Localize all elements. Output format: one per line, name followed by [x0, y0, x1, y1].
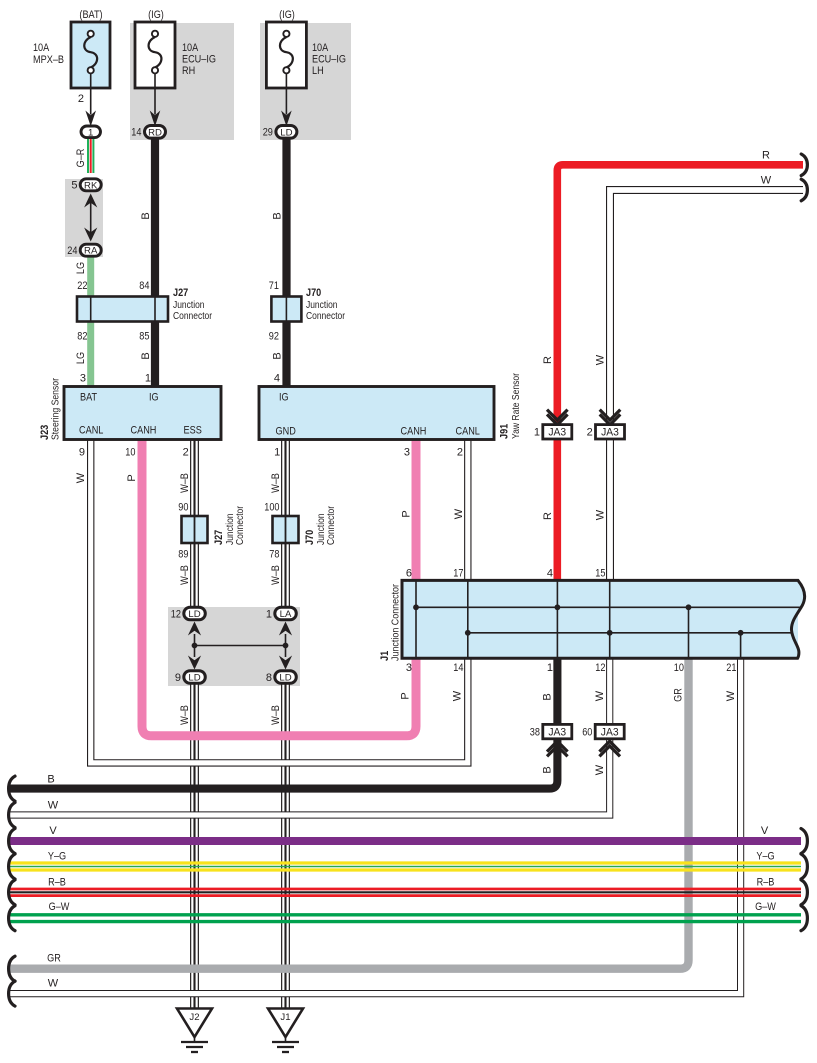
- wire label W (upper right): [595, 354, 607, 365]
- svg-text:5: 5: [71, 180, 77, 192]
- wire label B (below J1 pin1): [542, 693, 554, 700]
- wire label W (below J1 pin14): [452, 690, 464, 701]
- svg-text:1: 1: [88, 127, 93, 138]
- svg-text:LD: LD: [188, 609, 200, 620]
- svg-text:10: 10: [125, 447, 135, 459]
- svg-text:JA3: JA3: [601, 726, 619, 738]
- svg-text:RD: RD: [148, 127, 162, 138]
- chevron out of JA3 38: [547, 741, 568, 756]
- svg-text:4: 4: [547, 568, 553, 580]
- svg-text:IG: IG: [279, 392, 289, 404]
- svg-text:B: B: [542, 766, 554, 773]
- wire label LG (J27 to J23): [75, 352, 87, 364]
- wire label G-R: [75, 149, 87, 168]
- svg-text:17: 17: [453, 568, 463, 580]
- J1 designation label: [379, 583, 402, 661]
- break mark R-B left: [9, 880, 15, 905]
- svg-text:Steering Sensor: Steering Sensor: [51, 377, 62, 440]
- wire label B (below JA3 38): [542, 766, 554, 773]
- junction connector J1: [402, 580, 805, 658]
- wire label W (J23 CANL): [75, 472, 87, 483]
- svg-text:W: W: [595, 354, 607, 365]
- svg-text:W–B: W–B: [270, 705, 282, 725]
- svg-text:CANL: CANL: [79, 425, 103, 437]
- svg-text:JA3: JA3: [548, 426, 566, 438]
- svg-text:W: W: [595, 509, 607, 520]
- svg-text:2: 2: [457, 447, 463, 459]
- svg-text:2: 2: [183, 447, 189, 459]
- break mark V left: [9, 829, 15, 854]
- svg-text:14: 14: [131, 127, 141, 139]
- svg-text:J23: J23: [39, 425, 51, 440]
- connector JA3 pin2: [587, 425, 625, 439]
- bus label Y-G (left): [48, 851, 66, 863]
- svg-text:(IG): (IG): [279, 9, 295, 21]
- svg-text:W–B: W–B: [179, 705, 191, 725]
- svg-text:RH: RH: [182, 65, 195, 77]
- svg-text:R: R: [542, 356, 554, 364]
- svg-text:W: W: [594, 690, 606, 701]
- svg-text:1: 1: [534, 426, 540, 438]
- break mark V right: [801, 829, 807, 854]
- wire label R (lower): [542, 512, 554, 520]
- svg-text:CANL: CANL: [456, 426, 480, 438]
- double arrow between RK and RA: [84, 194, 97, 242]
- svg-text:J70: J70: [304, 530, 316, 545]
- shaded background fuse ECU-IG LH: [260, 23, 351, 140]
- svg-text:J91: J91: [499, 424, 511, 439]
- wire label W-B (J1 ground wire): [270, 705, 282, 725]
- break mark Y-G left: [9, 854, 15, 879]
- svg-text:22: 22: [77, 280, 87, 292]
- svg-text:JA3: JA3: [548, 726, 566, 738]
- wire B J27 pin85 to J23 IG pin1: [151, 321, 159, 388]
- chevron into JA3 2: [600, 410, 621, 425]
- connector JA3 pin38: [530, 724, 572, 738]
- svg-text:1: 1: [547, 662, 553, 674]
- svg-text:1: 1: [145, 373, 151, 385]
- break mark R right: [801, 154, 807, 176]
- wire label W-B (ESS mid): [179, 565, 191, 585]
- svg-text:W: W: [725, 690, 737, 701]
- wire label B (J27 lower): [140, 352, 152, 359]
- wire label R (upper): [542, 356, 554, 364]
- svg-text:R: R: [762, 150, 770, 162]
- break mark GR left: [9, 956, 15, 981]
- bus label W (left 1): [48, 800, 59, 812]
- svg-text:9: 9: [175, 672, 181, 684]
- svg-text:RA: RA: [84, 246, 98, 257]
- wire label W (below JA3 60): [594, 764, 606, 775]
- svg-text:W: W: [761, 175, 772, 187]
- J1 bottom pin labels: [406, 662, 737, 674]
- bus label Y-G (right): [756, 851, 774, 863]
- svg-text:G–W: G–W: [49, 901, 70, 913]
- svg-text:W–B: W–B: [179, 473, 191, 493]
- svg-text:3: 3: [80, 373, 86, 385]
- fuse 10A ECU-IG RH: [135, 9, 216, 115]
- J1 internal wire pin17-pin14: [467, 580, 469, 658]
- J1 junction dots: [413, 604, 743, 635]
- wire label B (fuse LH upper): [272, 212, 284, 219]
- svg-text:W: W: [452, 690, 464, 701]
- junction connector J27 lower: [178, 502, 246, 561]
- svg-text:4: 4: [274, 373, 280, 385]
- svg-text:W: W: [75, 472, 87, 483]
- svg-text:W–B: W–B: [270, 473, 282, 493]
- shaded background fuse ECU-IG RH: [130, 23, 234, 140]
- connector 14 RD: [131, 126, 165, 139]
- wire R-B bus: [8, 889, 801, 896]
- svg-text:J2: J2: [189, 1012, 199, 1023]
- svg-text:78: 78: [269, 549, 279, 561]
- wire label P (J23 CANH): [126, 474, 138, 481]
- svg-text:G–W: G–W: [755, 901, 776, 913]
- svg-text:GND: GND: [276, 426, 296, 438]
- J1 internal wire pin4-pin1: [556, 580, 558, 658]
- wire label W-B (J2 ground wire): [179, 705, 191, 725]
- wire P (CANH) J23 pin10 to J1 pin3: [142, 440, 416, 736]
- wire W J1 pin21 to left edge: [8, 658, 741, 993]
- svg-text:71: 71: [269, 280, 279, 292]
- svg-text:10A: 10A: [312, 42, 329, 54]
- svg-text:J1: J1: [280, 1012, 290, 1023]
- wire label LG: [75, 262, 87, 274]
- wire LG connector 24 RA to J27 pin22: [87, 255, 94, 297]
- svg-text:RK: RK: [84, 180, 98, 191]
- svg-text:J1: J1: [379, 651, 391, 661]
- svg-text:LG: LG: [75, 352, 87, 364]
- svg-text:R: R: [542, 512, 554, 520]
- break mark R-B right: [801, 880, 807, 905]
- chevron out of JA3 60: [599, 741, 620, 756]
- wire label W (J91 CANL): [453, 508, 465, 519]
- wire W (CANL) J23 pin9 to J1 pin14: [91, 440, 468, 763]
- svg-text:GR: GR: [47, 953, 61, 965]
- connector 24 RA: [67, 244, 101, 257]
- fuse 10A ECU-IG LH: [266, 9, 346, 115]
- connector 1 LA: [266, 607, 296, 620]
- break mark Y-G right: [801, 854, 807, 879]
- wire Y-G bus: [8, 863, 801, 870]
- wire label GR (below J1 pin10): [673, 688, 685, 702]
- svg-text:LH: LH: [312, 65, 324, 77]
- svg-text:2: 2: [587, 426, 593, 438]
- svg-text:W: W: [48, 800, 59, 812]
- svg-text:24: 24: [67, 245, 77, 257]
- svg-text:LD: LD: [280, 127, 292, 138]
- svg-text:ESS: ESS: [184, 425, 202, 437]
- svg-text:14: 14: [453, 662, 463, 674]
- wire label W-B (J23 ESS): [179, 473, 191, 493]
- J1 internal wire bus2-pin21: [740, 633, 742, 658]
- break mark W left 2: [9, 981, 15, 1006]
- bus label V (left): [49, 825, 57, 837]
- svg-text:10A: 10A: [33, 42, 50, 54]
- svg-text:82: 82: [77, 331, 87, 343]
- svg-text:(BAT): (BAT): [79, 9, 102, 21]
- wire W-B from J91 GND to ground J1: [281, 440, 290, 1009]
- svg-text:GR: GR: [673, 688, 685, 702]
- svg-text:12: 12: [171, 609, 181, 621]
- svg-text:Junction: Junction: [173, 300, 205, 311]
- svg-text:MPX–B: MPX–B: [33, 54, 64, 66]
- wire label W-B (GND mid): [270, 565, 282, 585]
- bus label R-B (right): [757, 876, 775, 888]
- shaded background RK/RA connector pair: [65, 179, 103, 257]
- connector JA3 pin1: [534, 425, 572, 439]
- svg-text:B: B: [47, 774, 54, 786]
- wire W J1 pin12 to JA3 60 and W bus to left edge: [8, 658, 610, 815]
- bus label GR (left): [47, 953, 61, 965]
- svg-text:85: 85: [139, 331, 149, 343]
- connector 29 LD: [263, 126, 297, 139]
- svg-text:(IG): (IG): [148, 9, 164, 21]
- svg-text:1: 1: [266, 609, 272, 621]
- wire label B (J70 lower): [272, 352, 284, 359]
- bus label W (right top): [761, 175, 772, 187]
- connector 1: [81, 126, 101, 138]
- wire B J1 pin1 to JA3 38 and B bus to left edge: [8, 658, 557, 788]
- svg-text:Y–G: Y–G: [48, 851, 66, 863]
- connector 12 LD: [171, 607, 206, 620]
- svg-text:Connector: Connector: [235, 505, 246, 545]
- wire label P (J91 CANH): [401, 510, 413, 517]
- J1 internal bus 2: [468, 632, 792, 634]
- svg-text:Connector: Connector: [173, 311, 213, 322]
- svg-text:Junction Connector: Junction Connector: [391, 583, 402, 661]
- break mark G-W left: [9, 906, 15, 931]
- yaw rate sensor J91: [259, 372, 522, 458]
- J1 top pin labels: [406, 568, 606, 580]
- svg-text:10A: 10A: [182, 42, 199, 54]
- ground J2: [177, 1009, 212, 1053]
- svg-text:ECU–IG: ECU–IG: [312, 54, 346, 66]
- svg-text:1: 1: [274, 447, 280, 459]
- svg-text:B: B: [272, 212, 284, 219]
- svg-text:Connector: Connector: [306, 311, 346, 322]
- steering sensor J23: [39, 373, 221, 459]
- svg-text:LG: LG: [75, 262, 87, 274]
- wire label W (lower right): [595, 509, 607, 520]
- wire GR J1 pin10 to left edge: [8, 658, 689, 969]
- bus label W (left 2): [48, 978, 59, 990]
- fuse 10A MPX-B: [33, 9, 110, 115]
- svg-text:Y–G: Y–G: [756, 851, 774, 863]
- svg-text:84: 84: [139, 280, 149, 292]
- svg-text:W–B: W–B: [179, 565, 191, 585]
- shaded background LD/LA connector group: [168, 607, 300, 686]
- junction connector J70 upper: [269, 280, 346, 343]
- ground J1: [268, 1009, 303, 1053]
- bus label G-W (right): [755, 901, 776, 913]
- bus label V (right): [761, 825, 769, 837]
- svg-text:W: W: [48, 978, 59, 990]
- svg-text:LD: LD: [279, 673, 291, 684]
- arrow into connector 29 LD: [281, 111, 292, 127]
- J1 internal wire bus1-pin10: [688, 607, 690, 658]
- break mark W right top: [801, 179, 807, 201]
- svg-text:ECU–IG: ECU–IG: [182, 54, 216, 66]
- wire label B (fuse RH upper): [140, 212, 152, 219]
- svg-text:12: 12: [595, 662, 605, 674]
- wire V bus: [8, 837, 801, 845]
- wire label W (below J1 pin12): [594, 690, 606, 701]
- internal link arrows between LD/LA connectors: [188, 622, 292, 670]
- svg-text:90: 90: [178, 502, 188, 514]
- svg-text:W: W: [594, 764, 606, 775]
- svg-text:J27: J27: [213, 530, 225, 545]
- wire R from right edge to JA3 1 to J1 pin4: [557, 165, 803, 581]
- svg-text:100: 100: [264, 502, 279, 514]
- connector 8 LD: [266, 671, 296, 684]
- junction connector J27 upper: [77, 280, 213, 343]
- J1 internal wire pin15-pin12: [609, 580, 611, 658]
- svg-text:IG: IG: [149, 392, 159, 404]
- svg-text:2: 2: [78, 93, 84, 105]
- svg-text:B: B: [542, 693, 554, 700]
- wire W from right edge to JA3 2 to J1 pin15: [610, 190, 803, 580]
- svg-text:6: 6: [406, 568, 412, 580]
- bus label B (left): [47, 774, 54, 786]
- svg-text:R–B: R–B: [757, 876, 775, 888]
- break mark W left 1: [9, 803, 15, 828]
- wire B fuse ECU-IG LH to J70 pin71: [282, 139, 290, 297]
- svg-text:CANH: CANH: [131, 425, 157, 437]
- svg-text:BAT: BAT: [80, 392, 97, 404]
- junction connector J70 lower: [264, 502, 337, 561]
- svg-text:J27: J27: [173, 287, 188, 299]
- connector 5 RK: [71, 179, 101, 192]
- wire B fuse ECU-IG RH to J27 pin84: [151, 139, 159, 297]
- bus label G-W (left): [49, 901, 70, 913]
- break mark G-W right: [801, 906, 807, 931]
- svg-text:9: 9: [79, 447, 85, 459]
- wire label P (below J1 pin3): [400, 692, 412, 699]
- svg-text:B: B: [140, 212, 152, 219]
- wire G-R from connector 1 to connector 5 RK: [87, 138, 94, 173]
- arrow into connector 1: [85, 111, 96, 127]
- svg-text:P: P: [401, 510, 413, 517]
- svg-text:15: 15: [595, 568, 605, 580]
- svg-text:J70: J70: [306, 287, 321, 299]
- bus label R-B (left): [48, 876, 66, 888]
- svg-text:21: 21: [726, 662, 736, 674]
- svg-text:W: W: [453, 508, 465, 519]
- wire W-B from J23 ESS to ground J2: [190, 440, 199, 1009]
- bus label R (right): [762, 150, 770, 162]
- svg-text:60: 60: [582, 726, 592, 738]
- svg-text:B: B: [140, 352, 152, 359]
- connector 9 LD: [175, 671, 205, 684]
- svg-text:Junction: Junction: [306, 300, 338, 311]
- svg-text:V: V: [761, 825, 769, 837]
- svg-text:B: B: [272, 352, 284, 359]
- break mark B left: [9, 776, 15, 801]
- svg-text:10: 10: [674, 662, 684, 674]
- wire LG J27 pin82 to J23 BAT pin3: [87, 321, 94, 388]
- svg-text:29: 29: [263, 127, 273, 139]
- svg-text:JA3: JA3: [601, 426, 619, 438]
- svg-text:3: 3: [404, 447, 410, 459]
- svg-text:P: P: [126, 474, 138, 481]
- wire W J91 CANL pin2 to J1 pin17: [464, 440, 471, 581]
- svg-text:R–B: R–B: [48, 876, 66, 888]
- svg-text:LD: LD: [188, 673, 200, 684]
- arrow into connector 14 RD: [150, 111, 161, 127]
- svg-text:3: 3: [406, 662, 412, 674]
- wire label W-B (J91 GND): [270, 473, 282, 493]
- svg-text:8: 8: [266, 672, 272, 684]
- svg-text:P: P: [400, 692, 412, 699]
- svg-text:Connector: Connector: [326, 505, 337, 545]
- connector JA3 pin60: [582, 724, 624, 738]
- svg-text:92: 92: [269, 331, 279, 343]
- svg-text:LA: LA: [280, 609, 292, 620]
- J1 internal wire pin6-pin3: [415, 580, 417, 658]
- svg-text:V: V: [49, 825, 57, 837]
- wire B J70 pin92 to J91 IG pin4: [282, 321, 290, 388]
- wire label W (below J1 pin21): [725, 690, 737, 701]
- svg-text:CANH: CANH: [401, 426, 427, 438]
- svg-text:38: 38: [530, 726, 540, 738]
- svg-text:W–B: W–B: [270, 565, 282, 585]
- wire G-W bus: [8, 915, 801, 922]
- wire P J91 CANH pin3 to J1 pin6: [412, 440, 421, 581]
- svg-text:G–R: G–R: [75, 149, 87, 168]
- chevron into JA3 1: [547, 410, 568, 425]
- J1 internal bus 1: [416, 606, 803, 608]
- svg-text:89: 89: [178, 549, 188, 561]
- svg-text:Yaw Rate Sensor: Yaw Rate Sensor: [511, 372, 522, 439]
